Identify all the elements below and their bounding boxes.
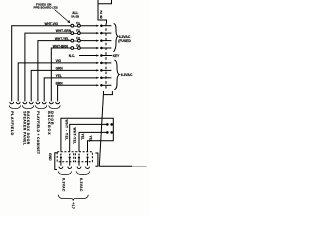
svg-text:WHT-VIO: WHT-VIO bbox=[45, 22, 59, 26]
brace playfield bbox=[9, 105, 20, 108]
svg-text:6.3VAC: 6.3VAC bbox=[79, 178, 83, 192]
svg-text:PPB BOARD (J3): PPB BOARD (J3) bbox=[34, 6, 58, 10]
wire WHT-YEL bbox=[38, 41, 96, 102]
svg-text:PLAYFIELD: PLAYFIELD bbox=[10, 111, 14, 136]
svg-text:N.C.: N.C. bbox=[69, 54, 75, 58]
wire from J6 shell down bbox=[99, 95, 103, 167]
N.C. pin 5 wire bbox=[79, 55, 96, 57]
svg-text:WHT-GRN: WHT-GRN bbox=[56, 29, 72, 33]
wire GRN bbox=[31, 70, 96, 101]
connector box 6.3VAC right (dashed) bbox=[75, 152, 92, 162]
brace under box1 bbox=[58, 171, 71, 174]
svg-text:ALL: ALL bbox=[72, 11, 78, 15]
svg-text:YEL: YEL bbox=[89, 136, 93, 142]
terminal cup speaker hot bbox=[23, 102, 27, 104]
svg-text:KEY: KEY bbox=[113, 54, 120, 58]
terminal cup backbox ret bbox=[56, 102, 60, 104]
pin 4 bbox=[96, 47, 111, 50]
pin 6 bbox=[96, 62, 111, 65]
wire WHT-GRN bbox=[25, 33, 96, 101]
svg-text:F2: F2 bbox=[76, 29, 80, 33]
bracket right of 6.3VAC connectors bbox=[95, 153, 98, 166]
brace under box2 bbox=[76, 171, 89, 174]
svg-text:F4: F4 bbox=[76, 44, 80, 48]
svg-text:5A SB: 5A SB bbox=[71, 15, 79, 19]
terminal cup speaker ret bbox=[29, 102, 33, 104]
connector J6 dashed body centerline bbox=[105, 24, 107, 91]
svg-text:YEL: YEL bbox=[56, 74, 62, 78]
svg-text:(FUSED: (FUSED bbox=[118, 39, 131, 43]
svg-text:F3: F3 bbox=[76, 36, 80, 40]
brace playfield cabinet bbox=[35, 105, 46, 108]
terminal cup box1 A bbox=[59, 167, 63, 169]
box2 pin B bbox=[87, 154, 89, 156]
wire from board to connector J6 bbox=[98, 4, 107, 24]
pin 9 bbox=[96, 84, 111, 87]
svg-text:BRN: BRN bbox=[56, 82, 64, 86]
wire YEL 1 with splice bbox=[79, 132, 113, 151]
svg-text:WHT-BRN: WHT-BRN bbox=[53, 44, 69, 48]
svg-text:WHT-YEL: WHT-YEL bbox=[72, 128, 76, 145]
svg-text:6.3VAC: 6.3VAC bbox=[121, 73, 133, 77]
fuse F4 bbox=[71, 44, 80, 50]
wire YEL bbox=[44, 78, 96, 102]
svg-text:PLAYFIELD + CABINET: PLAYFIELD + CABINET bbox=[36, 111, 40, 154]
terminal cup pf+cab ret bbox=[42, 102, 46, 104]
wire WHT-YEL 2 with splice bbox=[70, 124, 114, 151]
fuse F3 bbox=[71, 36, 80, 42]
brace speaker panel bbox=[22, 105, 33, 108]
svg-text:VIO: VIO bbox=[56, 59, 62, 63]
pin 5 key bbox=[96, 54, 111, 57]
box1 pin B bbox=[69, 154, 71, 156]
svg-text:WHT-YEL: WHT-YEL bbox=[55, 37, 69, 41]
brace backbox door bbox=[49, 105, 60, 108]
svg-text:GRN: GRN bbox=[56, 67, 64, 71]
bottom bus wire bbox=[99, 165, 132, 167]
KEY label bbox=[110, 55, 113, 57]
wire VIO bbox=[18, 63, 96, 102]
wire WHT-YEL loop (pin1 to frame) bbox=[61, 118, 113, 151]
terminal cup pf+cab hot bbox=[36, 102, 40, 104]
power board box (top, cut off) bbox=[98, 0, 112, 4]
pin 1 bbox=[96, 24, 111, 27]
pin 7 bbox=[96, 69, 111, 72]
terminal cup box1 B bbox=[68, 167, 72, 169]
brace 6.3VAC fused bbox=[114, 24, 118, 53]
svg-text:F1: F1 bbox=[76, 21, 80, 25]
terminal cup backbox hot bbox=[49, 102, 53, 104]
svg-text:WHT - YEL: WHT - YEL bbox=[64, 120, 68, 141]
pointer line to fuse F1 bbox=[55, 10, 70, 23]
big brace both connectors bbox=[58, 195, 88, 201]
wire BRN bbox=[58, 85, 97, 101]
box1 pin A bbox=[60, 154, 62, 156]
pin 3 bbox=[96, 39, 111, 42]
fuse F1 bbox=[71, 21, 80, 27]
pin 8 bbox=[96, 77, 111, 80]
brace 6.3VAC unfused bbox=[114, 60, 119, 90]
bracket GND bbox=[55, 153, 57, 170]
svg-text:BACKBOX: BACKBOX bbox=[47, 111, 51, 135]
svg-text:6.3VAC: 6.3VAC bbox=[62, 178, 66, 192]
terminal cup playfield ret bbox=[16, 102, 20, 104]
svg-text:SPEAKER PANEL: SPEAKER PANEL bbox=[22, 111, 26, 145]
svg-text:YEL: YEL bbox=[81, 134, 85, 140]
connector box 6.3VAC left (dashed) bbox=[57, 152, 73, 162]
box2 pin A bbox=[78, 154, 80, 156]
fuse F2 bbox=[71, 29, 80, 35]
svg-text:+17: +17 bbox=[71, 202, 75, 209]
terminal cup box2 B bbox=[86, 167, 90, 169]
svg-text:GND: GND bbox=[48, 153, 52, 161]
terminal cup box2 A bbox=[77, 167, 81, 169]
terminal cup playfield hot bbox=[10, 102, 14, 104]
wire WHT-VIO bbox=[12, 26, 97, 102]
wire WHT-BRN bbox=[51, 48, 96, 101]
connector J6 bottom bracket bbox=[104, 91, 113, 95]
pin 2 bbox=[96, 32, 111, 35]
